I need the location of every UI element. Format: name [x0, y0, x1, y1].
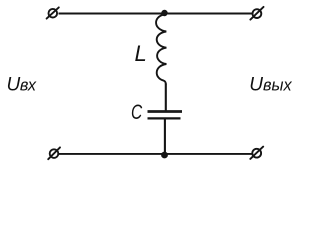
wire vertical (inductor to capacitor) — [165, 84, 167, 111]
terminal top-left (input) — [47, 7, 59, 18]
wire vertical (capacitor to bottom) — [164, 120, 166, 155]
svg-text:Uвх: Uвх — [7, 74, 37, 95]
terminal bottom-right (output) — [250, 147, 263, 159]
svg-text:Uвых: Uвых — [249, 74, 292, 95]
inductor L coil — [156, 14, 166, 84]
wire bottom — [59, 153, 252, 155]
node junction bottom — [161, 152, 168, 159]
capacitor C top plate — [148, 110, 183, 113]
svg-text:C: C — [131, 100, 143, 124]
wire top — [59, 13, 253, 15]
terminal top-right (output) — [250, 7, 263, 20]
svg-text:L: L — [135, 41, 147, 66]
node junction top — [161, 10, 167, 16]
capacitor C bottom plate — [148, 117, 181, 119]
terminal bottom-left (input) — [48, 147, 60, 159]
